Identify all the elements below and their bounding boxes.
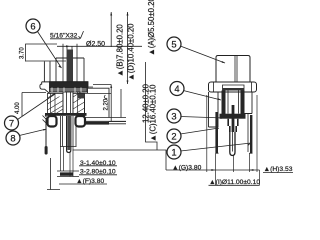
left foot xyxy=(48,116,57,127)
leader from balloon 5 xyxy=(180,46,225,63)
dim line x121 xyxy=(120,89,122,118)
dim line 3.70 xyxy=(25,44,27,62)
svg-text:▲(D)10.40±0.20: ▲(D)10.40±0.20 xyxy=(127,23,136,81)
svg-text:▲(B)7.80±0.20: ▲(B)7.80±0.20 xyxy=(116,24,125,77)
ext line y92.7 xyxy=(78,92,111,94)
dim line x145.5 for 12.40 xyxy=(146,62,158,150)
svg-text:▲(A)Ø5.50±0.20: ▲(A)Ø5.50±0.20 xyxy=(147,0,156,56)
arrows on bottom dim line xyxy=(211,169,253,171)
svg-text:7: 7 xyxy=(9,118,14,129)
right foot xyxy=(76,116,86,127)
side lug wire xyxy=(45,118,47,148)
body right wall xyxy=(245,92,253,114)
svg-text:Ø2.50: Ø2.50 xyxy=(86,41,105,48)
left leg xyxy=(215,112,218,153)
svg-text:4: 4 xyxy=(174,83,179,94)
body left wall xyxy=(209,92,219,127)
svg-text:1: 1 xyxy=(171,147,176,158)
center pin xyxy=(230,132,235,156)
right view: top cap xyxy=(216,56,250,83)
balloon 2 xyxy=(167,129,181,143)
center column xyxy=(63,92,73,116)
right leg xyxy=(250,115,252,153)
lower leader line to right xyxy=(73,150,167,170)
svg-text:2: 2 xyxy=(171,131,176,142)
svg-text:5: 5 xyxy=(171,39,176,50)
dim line 4.00 xyxy=(21,93,23,117)
svg-text:6: 6 xyxy=(30,21,35,32)
leg extension lines xyxy=(215,153,249,185)
bushing top bracket xyxy=(63,44,77,47)
leader from balloon 2 xyxy=(180,128,219,134)
washer T-bar xyxy=(220,114,246,119)
tick y92 xyxy=(22,92,46,94)
leader from balloon 6 to bushing xyxy=(38,32,62,69)
lug hatch left xyxy=(43,116,48,124)
left view: flange nut dark band xyxy=(50,82,89,88)
left view: bushing outer body xyxy=(56,58,84,82)
balloon 7 xyxy=(5,116,19,130)
top arrowheads xyxy=(110,12,128,16)
flange top line to left tab xyxy=(42,81,88,83)
side lug tip xyxy=(45,146,48,155)
plate right dark band xyxy=(84,122,109,125)
leader from balloon 8 xyxy=(19,129,46,136)
stem below washer xyxy=(228,119,238,132)
inner dark bar left xyxy=(222,91,226,115)
dim ext y84 to 2.20 line xyxy=(93,84,111,86)
leader from balloon 7 xyxy=(18,94,56,120)
right plate outline xyxy=(85,88,110,117)
bottom dimension line xyxy=(166,169,260,171)
balloon 5 xyxy=(167,37,181,51)
svg-text:3: 3 xyxy=(171,111,176,122)
lower plate dark band xyxy=(45,113,87,116)
nut inner notch xyxy=(223,85,245,92)
svg-text:2.20: 2.20 xyxy=(104,98,110,110)
svg-text:▲(H)3.53: ▲(H)3.53 xyxy=(264,166,293,173)
leg dia dim lines xyxy=(57,171,79,177)
left view: bushing top inner xyxy=(63,46,77,82)
center pin upper bar xyxy=(232,105,235,132)
extension line left of body xyxy=(206,95,208,172)
svg-text:3.70: 3.70 xyxy=(20,47,26,59)
inner dark bar right xyxy=(241,91,245,115)
balloon 1 xyxy=(167,145,181,159)
svg-text:▲(G)3.80: ▲(G)3.80 xyxy=(172,165,202,172)
flange lower hatched band xyxy=(50,88,88,93)
dim line (F) vertical xyxy=(47,158,60,190)
right view: nut band xyxy=(209,82,257,92)
legs of left view xyxy=(61,116,77,147)
balloon 6 xyxy=(26,19,40,33)
inner column lines xyxy=(228,91,239,114)
lower plate ext to right xyxy=(109,121,127,123)
body block verticals xyxy=(51,93,56,113)
svg-text:▲(C)16.40±0.10: ▲(C)16.40±0.10 xyxy=(149,84,158,142)
balloon 3 xyxy=(167,109,181,123)
center leg U xyxy=(67,116,71,153)
small hook arc xyxy=(104,95,107,98)
right side step xyxy=(216,114,253,154)
body right block xyxy=(73,93,85,113)
extension right long xyxy=(257,95,260,185)
flange step notch xyxy=(88,84,94,88)
plate right lines xyxy=(84,118,126,124)
leader from balloon 3 xyxy=(181,117,225,119)
left tab hook xyxy=(40,82,50,94)
dim line x111.2 xyxy=(110,85,112,122)
balloon 4 xyxy=(170,82,184,96)
nut facet lines xyxy=(214,82,252,92)
dark piece right of body top xyxy=(78,93,85,99)
svg-text:4.00: 4.00 xyxy=(15,102,21,114)
svg-text:8: 8 xyxy=(10,133,15,144)
leg ticks xyxy=(60,146,77,148)
leader from balloon 1 xyxy=(181,143,252,151)
cap inner lines xyxy=(235,56,237,83)
thread hatch dark column xyxy=(67,50,73,83)
balloon 8 xyxy=(6,131,20,145)
leader from balloon 4 xyxy=(183,91,221,101)
dim line x127.5 for (D) xyxy=(127,12,129,84)
tick y61 xyxy=(26,60,67,62)
leg extension lines down xyxy=(60,147,73,177)
body block left hatched xyxy=(48,93,64,113)
washer strips left of bushing xyxy=(44,62,50,82)
dark bar between dim lines xyxy=(60,172,73,175)
extension line y46 xyxy=(57,45,142,47)
dim line top x112 xyxy=(110,12,112,47)
surface finish check mark xyxy=(79,31,84,38)
